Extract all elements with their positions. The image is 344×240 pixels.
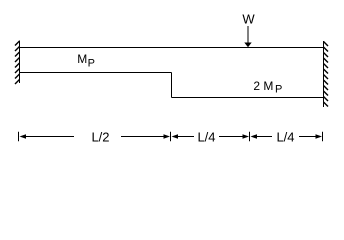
svg-text:P: P [88, 58, 95, 70]
svg-text:L/4: L/4 [276, 130, 294, 145]
svg-text:L/2: L/2 [91, 130, 109, 145]
svg-text:W: W [242, 12, 255, 27]
svg-text:M: M [77, 52, 87, 66]
svg-text:P: P [275, 84, 282, 96]
svg-text:L/4: L/4 [197, 130, 215, 145]
svg-text:2 M: 2 M [253, 79, 273, 93]
